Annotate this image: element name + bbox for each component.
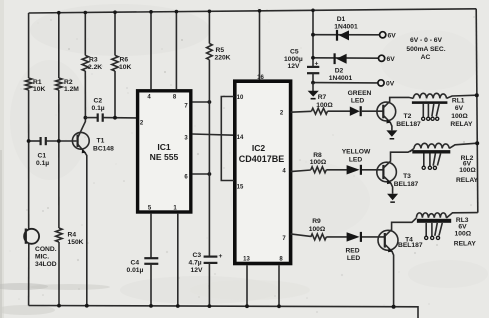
node collector/C2 junction [84,116,88,120]
svg-text:10: 10 [237,95,244,101]
svg-text:RL1: RL1 [452,98,465,105]
svg-text:0.1µ: 0.1µ [36,160,49,167]
svg-text:BEL187: BEL187 [398,242,423,249]
svg-text:12V: 12V [288,63,300,70]
svg-text:0.1µ: 0.1µ [92,105,105,112]
svg-text:D2: D2 [335,68,344,75]
svg-text:R7: R7 [318,94,327,101]
svg-text:GREEN: GREEN [348,90,372,97]
svg-text:R1: R1 [33,79,42,86]
wire bottom ground rail [29,306,418,318]
svg-text:LED: LED [347,255,361,262]
svg-text:D1: D1 [337,16,346,23]
svg-text:10K: 10K [33,86,45,93]
svg-text:BC148: BC148 [93,146,114,153]
svg-text:YELLOW: YELLOW [342,149,371,156]
relay RL2 [414,143,449,148]
svg-text:C2: C2 [94,98,103,105]
svg-text:100Ω: 100Ω [310,159,327,166]
svg-text:+: + [219,253,223,260]
svg-text:1N4001: 1N4001 [334,24,358,31]
capacitor C2 [85,117,97,119]
op IC2 CD4017BE box [235,81,291,263]
wire R3 collector branch [84,13,86,56]
wire IC2 pin16 to rail [259,11,261,80]
svg-text:T3: T3 [403,173,411,180]
svg-text:RELAY: RELAY [450,121,473,128]
wire IC1 pin6 to timing node [192,173,209,175]
resistor R7 [291,110,312,113]
wire R6 branch [114,12,116,55]
transistor T1 BC148 [72,132,89,149]
ground below C5 [312,83,314,91]
svg-text:6V: 6V [455,105,464,112]
wire right supply rail [476,9,478,213]
svg-text:NE 555: NE 555 [150,152,179,162]
resistor R3 [82,55,88,71]
diode D2 1N4001 [313,57,379,59]
node T1 base junction [57,139,61,143]
svg-text:6V: 6V [387,56,396,63]
relay RL3 [416,213,446,218]
node mic/C1 junction [27,139,31,143]
wire IC1 pin4 to rail [150,12,152,89]
resistor R4 [56,228,62,242]
LED red [326,236,347,238]
terminal 6V upper [380,32,386,38]
svg-text:6V: 6V [458,223,467,230]
svg-text:BEL187: BEL187 [394,181,419,188]
wire rectifier feed branch [312,10,314,67]
wire IC1 pin3 to IC2 pin14 [192,134,234,135]
svg-text:RELAY: RELAY [454,240,477,247]
svg-text:0V: 0V [386,81,395,88]
svg-text:LED: LED [349,157,363,164]
svg-text:100Ω: 100Ω [451,113,468,120]
wire IC1 pin1 to rail [177,213,179,306]
svg-text:15: 15 [237,185,244,191]
wire IC2 pin13 to rail [246,265,248,306]
wire R2/R4 bias divider branch [58,13,60,78]
capacitor C4 [144,257,158,259]
svg-text:R6: R6 [120,57,129,64]
wire IC1 pin8 to rail [175,12,177,89]
node bottom rail junctions [57,304,61,308]
svg-text:1.2M: 1.2M [64,86,79,93]
svg-text:34LOD: 34LOD [35,261,57,268]
terminal 0V [313,82,378,84]
svg-text:T1: T1 [97,138,105,145]
node R6/pin2 junction [113,116,117,120]
capacitor C5 1000u [307,66,319,68]
svg-text:C1: C1 [38,153,47,160]
svg-text:R2: R2 [64,79,73,86]
svg-text:R4: R4 [68,232,77,239]
svg-text:RED: RED [345,248,359,255]
transistor T3 BEL187 [377,162,397,182]
svg-text:10K: 10K [119,64,131,71]
svg-text:+: + [315,61,319,68]
wire R5 timing branch [208,11,210,43]
svg-text:1000µ: 1000µ [284,56,303,63]
svg-text:RELAY: RELAY [456,177,479,184]
svg-text:T2: T2 [403,113,411,120]
svg-text:16: 16 [257,75,264,81]
svg-text:C3: C3 [193,252,202,259]
capacitor C3 [204,256,218,258]
svg-text:R5: R5 [216,47,225,54]
svg-text:AC: AC [421,54,431,61]
node top rail junctions [57,11,61,15]
svg-text:100Ω: 100Ω [455,230,472,237]
svg-text:2.2K: 2.2K [88,64,102,71]
terminal 6V lower [379,55,385,61]
LED green [328,110,351,112]
svg-text:14: 14 [237,135,244,141]
wire IC2 pin8 to rail [278,265,280,306]
paper speckle [161,48,163,50]
wire mic/R1 branch [28,13,30,78]
svg-text:R3: R3 [89,57,98,64]
resistor R6 [112,55,118,71]
svg-text:150K: 150K [68,239,84,246]
transistor T4 BEL187 [378,230,398,250]
svg-text:CD4017BE: CD4017BE [239,154,285,164]
wire IC1 pin5 to C4 [150,213,152,258]
svg-text:100Ω: 100Ω [309,226,326,233]
resistor R9 [291,234,311,237]
svg-text:MIC.: MIC. [35,254,49,261]
svg-text:1N4001: 1N4001 [329,75,353,82]
paper background shading [0,0,4,318]
svg-text:13: 13 [243,257,250,263]
wire top supply rail [29,9,477,13]
resistor R2 [56,78,62,90]
diode D1 1N4001 [313,34,380,36]
resistor R1 [25,78,31,90]
transistor T2 BEL187 [377,102,396,121]
svg-text:R9: R9 [312,218,321,225]
svg-text:6V - 0 - 6V: 6V - 0 - 6V [410,37,443,44]
svg-text:BEL187: BEL187 [396,121,421,128]
svg-text:0.01µ: 0.01µ [127,267,144,274]
svg-text:6V: 6V [388,33,397,40]
svg-text:220K: 220K [215,55,231,62]
svg-text:12V: 12V [191,267,203,274]
svg-text:IC1: IC1 [157,142,171,152]
svg-text:LED: LED [351,97,365,104]
svg-text:500mA SEC.: 500mA SEC. [406,46,445,53]
svg-text:100Ω: 100Ω [459,167,476,174]
wire IC2 pins 10-15 tie [221,97,234,181]
wire IC1 pin7 to R5 node [192,101,209,103]
svg-text:100Ω: 100Ω [316,102,333,109]
resistor R8 [291,170,311,172]
svg-text:C5: C5 [290,49,299,56]
op IC1 NE555 box [138,91,191,212]
ground below T3 [387,194,398,200]
svg-text:COND.: COND. [35,246,57,253]
svg-text:4.7µ: 4.7µ [189,260,202,267]
condenser microphone MIC [25,229,27,244]
LED yellow [326,169,347,171]
capacitor C1 [29,140,41,142]
svg-text:IC2: IC2 [252,143,266,153]
ground below T2 [386,130,397,136]
relay RL1 [413,93,446,98]
svg-text:C4: C4 [131,259,140,266]
